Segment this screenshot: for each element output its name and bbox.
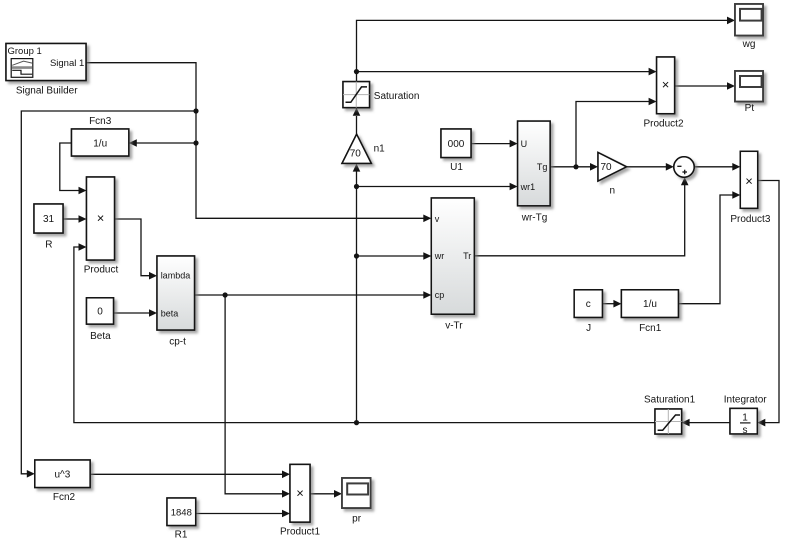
wire Product1 output to pr scope xyxy=(310,493,335,495)
wire sum to Product3 in1 xyxy=(694,166,733,168)
svg-text:R: R xyxy=(45,239,52,250)
wire Saturation1 output to Product in3 xyxy=(74,247,655,423)
wire n1 output to Saturation xyxy=(356,116,358,134)
wire wr branch to wr-Tg wr1 xyxy=(357,186,511,188)
wire wr branch to v-Tr wr xyxy=(357,255,425,257)
wire Product3 output to Integrator xyxy=(758,181,779,423)
block cp-t subsystem xyxy=(157,256,195,348)
svg-text:wr-Tg: wr-Tg xyxy=(521,212,548,223)
wire Fcn3 output to Product in1 xyxy=(60,143,79,191)
svg-text:wr: wr xyxy=(434,251,445,261)
svg-text:Product2: Product2 xyxy=(643,119,683,130)
wire R1 to Product1 in3 xyxy=(196,513,283,515)
svg-text:Tg: Tg xyxy=(537,162,548,172)
svg-text:Group 1: Group 1 xyxy=(8,46,42,57)
svg-text:Pt: Pt xyxy=(745,103,755,114)
svg-text:s: s xyxy=(743,425,748,436)
svg-text:Beta: Beta xyxy=(90,331,111,342)
svg-text:pr: pr xyxy=(352,514,362,525)
wire branch to Product2 in1 xyxy=(357,71,650,73)
sum block xyxy=(674,157,694,177)
svg-text:×: × xyxy=(662,77,670,92)
wire v-Tr Tr output to sum plus input xyxy=(474,185,684,256)
wire gain n to sum xyxy=(627,166,667,168)
svg-text:c: c xyxy=(586,299,591,310)
scope pr xyxy=(342,478,371,525)
wire Fcn1 output to Product3 in2 xyxy=(678,195,732,304)
scope wg xyxy=(735,4,763,50)
svg-text:wr1: wr1 xyxy=(520,182,536,192)
wire Product output to cp-t lambda xyxy=(115,219,150,276)
wire wr spine up to n1 xyxy=(356,171,358,423)
block J constant c xyxy=(574,290,602,334)
block Signal Builder xyxy=(6,44,86,97)
svg-text:31: 31 xyxy=(43,214,55,225)
svg-text:U: U xyxy=(521,139,528,149)
block Product xyxy=(84,177,119,275)
svg-text:beta: beta xyxy=(161,309,179,319)
svg-text:000: 000 xyxy=(448,139,465,150)
block Product3 xyxy=(730,151,770,225)
wire Tg branch up to Product2 in2 xyxy=(576,102,649,167)
svg-text:×: × xyxy=(745,174,753,189)
svg-text:Product3: Product3 xyxy=(730,214,770,225)
svg-text:lambda: lambda xyxy=(161,271,191,281)
svg-text:1/u: 1/u xyxy=(93,139,107,150)
wire Fcn2 output to Product1 in1 xyxy=(90,473,282,475)
svg-text:×: × xyxy=(296,485,304,500)
svg-text:wg: wg xyxy=(742,39,756,50)
wire Saturation output up to wg scope xyxy=(357,20,728,81)
block v-Tr subsystem xyxy=(431,198,474,331)
wire Tg output to gain n xyxy=(550,166,590,168)
block Saturation1 xyxy=(644,395,696,435)
svg-text:n1: n1 xyxy=(374,143,386,154)
wire branch to Fcn2 input xyxy=(21,111,196,474)
svg-text:1848: 1848 xyxy=(171,507,192,518)
svg-text:1/u: 1/u xyxy=(643,299,657,310)
svg-text:R1: R1 xyxy=(175,530,188,541)
scope Pt xyxy=(735,71,763,114)
gain n1 xyxy=(342,134,385,163)
block Product1 xyxy=(280,464,320,537)
wire R to Product in2 xyxy=(63,218,79,220)
block Fcn1 xyxy=(621,290,678,334)
block Fcn2 u^3 xyxy=(35,460,90,503)
block R1 constant 1848 xyxy=(167,498,196,541)
svg-text:v: v xyxy=(435,214,440,224)
svg-text:Tr: Tr xyxy=(463,251,471,261)
svg-text:Product: Product xyxy=(84,264,119,275)
block R constant 31 xyxy=(34,204,63,250)
wire cp-t output to v-Tr cp xyxy=(195,294,425,296)
block Product2 xyxy=(643,57,683,130)
svg-text:cp-t: cp-t xyxy=(169,337,186,348)
svg-text:Signal Builder: Signal Builder xyxy=(16,86,78,97)
block Saturation xyxy=(343,82,419,108)
svg-text:70: 70 xyxy=(601,162,613,173)
wire Signal1 to v input xyxy=(86,63,424,219)
svg-text:Fcn1: Fcn1 xyxy=(639,323,662,334)
svg-text:Product1: Product1 xyxy=(280,527,320,538)
svg-text:1: 1 xyxy=(742,413,748,424)
svg-text:J: J xyxy=(586,323,591,334)
block Integrator xyxy=(724,395,767,436)
svg-text:Integrator: Integrator xyxy=(724,395,767,406)
svg-text:Signal 1: Signal 1 xyxy=(50,58,84,69)
svg-text:Fcn2: Fcn2 xyxy=(53,492,76,503)
wire Beta to cp-t beta xyxy=(114,312,150,314)
svg-text:v-Tr: v-Tr xyxy=(445,320,463,331)
svg-text:Saturation: Saturation xyxy=(374,91,420,102)
svg-text:cp: cp xyxy=(435,290,445,300)
wire U1 to wr-Tg U xyxy=(471,143,510,145)
block Beta constant 0 xyxy=(87,298,114,342)
block Fcn3 xyxy=(72,116,129,156)
svg-text:n: n xyxy=(610,185,616,196)
wire J to Fcn1 xyxy=(602,303,614,305)
wire cp-t branch down to Product1 in2 xyxy=(225,295,282,494)
svg-text:70: 70 xyxy=(350,148,362,159)
svg-text:u^3: u^3 xyxy=(54,470,70,481)
wire Integrator to Saturation1 xyxy=(689,422,730,424)
svg-text:0: 0 xyxy=(97,307,103,318)
wire branch to Fcn3 input xyxy=(137,142,197,144)
gain n xyxy=(598,153,627,197)
block wr-Tg subsystem xyxy=(518,121,551,223)
svg-text:Fcn3: Fcn3 xyxy=(89,116,112,127)
wire Product2 to Pt scope xyxy=(675,85,728,87)
svg-text:Saturation1: Saturation1 xyxy=(644,395,696,406)
block U1 constant 000 xyxy=(441,129,471,173)
svg-text:U1: U1 xyxy=(450,162,463,173)
svg-text:×: × xyxy=(97,211,105,226)
